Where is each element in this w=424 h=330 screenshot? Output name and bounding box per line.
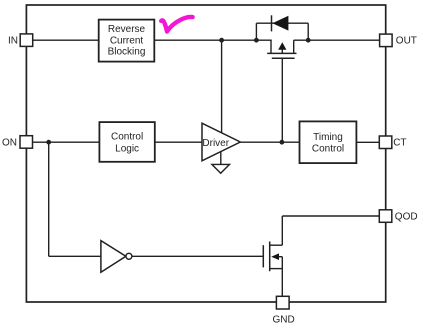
wire Q2 source down to GND pin [281,269,283,297]
node junction: OUT tap of body diode [306,38,311,43]
wire body diode top (anode side) [256,22,308,24]
node junction: gate drive node [280,140,285,145]
wire body diode right riser [307,23,309,40]
annotation: magenta checkmark [161,17,192,31]
svg-text:Timing: Timing [313,132,343,143]
wire inverter output to Q2 gate [132,255,263,257]
transistor Q1 pass FET [267,40,296,58]
node junction: ON tap to inverter [46,140,51,145]
wire driver output to Timing Control [240,141,299,143]
pin QOD [379,210,417,223]
svg-text:OUT: OUT [396,36,417,47]
wire Q1 gate down to driver output [281,58,283,142]
body diode D1 (cathode bar + filled triangle) [272,15,289,31]
wire RCB output rail to pass FET drain (top rail, left segment) [154,39,271,41]
wire top rail junction down to driver top [221,40,223,133]
IC package outline [26,5,385,302]
pin IN [8,34,33,47]
svg-text:IN: IN [8,36,18,47]
svg-text:Reverse: Reverse [108,24,146,35]
pin OUT [380,34,417,47]
wire Q2 drain up to QOD wire [281,216,283,245]
ground [212,164,230,173]
wire to QOD pin [282,215,379,217]
block Reverse Current Blocking [99,20,155,62]
op-amp driver U1 [202,123,240,161]
svg-text:Control: Control [312,144,344,155]
svg-text:GND: GND [272,315,294,326]
wire pass FET source to OUT pin (top rail, right segment) [294,39,380,41]
block Timing Control [300,121,357,163]
node junction: body diode left tap [254,38,259,43]
pin ON [2,136,33,149]
svg-text:QOD: QOD [395,212,418,223]
wire ON pin to Control Logic [33,141,100,143]
wire inverter input [49,255,101,257]
svg-text:ON: ON [2,138,17,149]
wire body diode left riser [255,23,257,40]
block Control Logic [99,122,154,162]
wire driver to ground symbol stub [220,152,222,165]
svg-text:Logic: Logic [115,144,139,155]
svg-text:Driver: Driver [202,138,229,149]
wire Timing Control to CT pin [356,141,379,143]
pin CT [379,136,406,149]
inverter U2 [101,241,132,273]
wire ON tap down [48,142,50,256]
wire Control Logic to driver input [155,141,202,143]
svg-text:Blocking: Blocking [108,47,146,58]
svg-text:CT: CT [393,138,406,149]
svg-text:Current: Current [110,35,144,46]
node junction: driver supply tap on top rail [219,38,224,43]
pin GND [272,296,294,325]
transistor Q2 QOD pull-down NMOS [263,242,282,272]
svg-text:Control: Control [111,132,143,143]
wire IN pin to Reverse Current Blocking input [33,39,99,41]
